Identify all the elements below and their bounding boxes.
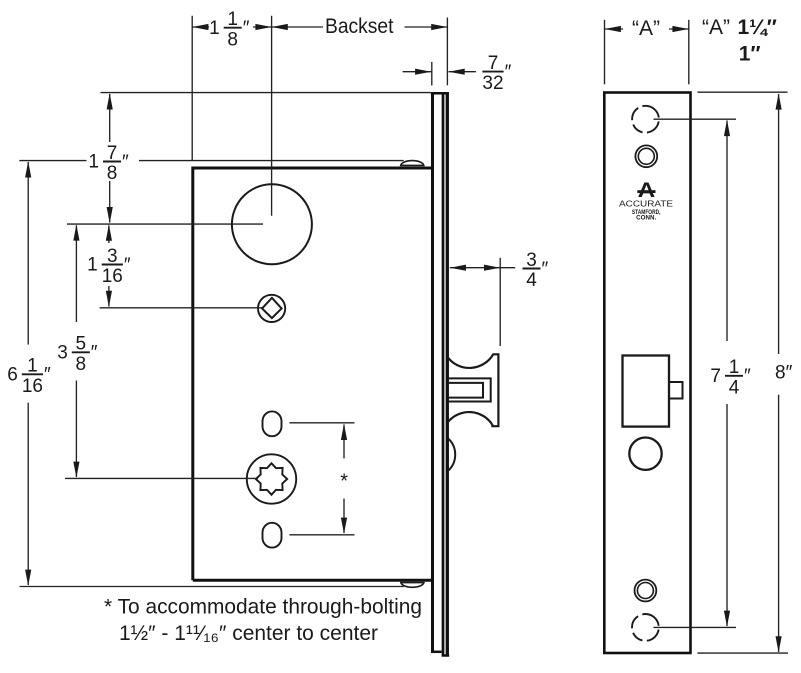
svg-text:″: ″ — [122, 152, 129, 173]
svg-text:*: * — [340, 471, 348, 493]
bottom screw dome — [401, 583, 424, 588]
latch bolt front — [623, 356, 670, 427]
svg-text:3: 3 — [57, 343, 68, 364]
svg-text:7: 7 — [710, 366, 721, 387]
svg-text:1¼″: 1¼″ — [738, 16, 777, 39]
lock case body — [193, 168, 433, 580]
8-point star hole — [256, 463, 287, 494]
svg-text:8″: 8″ — [775, 362, 793, 383]
faceplate top cap — [431, 92, 449, 95]
svg-text:″: ″ — [124, 255, 131, 276]
svg-text:″: ″ — [44, 365, 51, 386]
dim 3/4 — [450, 267, 515, 269]
svg-text:1: 1 — [209, 18, 220, 39]
latch bolt head inner rect — [448, 383, 483, 398]
bottom hole leader line — [654, 626, 737, 628]
dim 7-1/4 — [726, 121, 728, 342]
dim 1-1/8 and Backset line — [192, 26, 209, 28]
faceplate bottom caps — [431, 651, 442, 654]
extension line bottom y586.5 — [20, 586, 404, 588]
deadlatch pin arc — [448, 438, 456, 471]
bottom cylinder hole (dashed) — [632, 614, 659, 641]
svg-text:8: 8 — [227, 29, 238, 50]
extension line left edge — [191, 16, 193, 160]
plate top/bottom extension lines — [697, 91, 787, 93]
svg-text:CONN.: CONN. — [636, 216, 656, 222]
cylinder horizontal centerline — [67, 223, 263, 225]
svg-text:4: 4 — [729, 377, 740, 398]
spindle square (diamond) — [262, 298, 282, 318]
dim 1-3/16 — [108, 226, 110, 244]
upper screw ring — [635, 145, 657, 167]
mid circle hole — [629, 438, 661, 470]
svg-text:″: ″ — [542, 259, 549, 280]
svg-text:“A”: “A” — [632, 17, 660, 40]
oval extension lines — [289, 422, 354, 424]
turn-piece hub circle — [247, 454, 296, 503]
star leader line — [65, 477, 258, 479]
extension line y92.6 (1-7/8 top) — [101, 92, 431, 94]
latch bolt head outer rect — [448, 378, 491, 401]
svg-text:4: 4 — [526, 270, 537, 291]
svg-text:Backset: Backset — [325, 15, 394, 38]
dim star-to-star (*) — [343, 425, 345, 459]
armor faceplate edge (two lines) — [442, 93, 445, 656]
latch bolt spool profile — [448, 354, 499, 426]
svg-text:1½″ - 1¹¹⁄₁₆″ center to center: 1½″ - 1¹¹⁄₁₆″ center to center — [119, 622, 378, 645]
spindle hub circle — [258, 295, 285, 322]
svg-text:1″: 1″ — [739, 43, 761, 66]
svg-text:1: 1 — [87, 255, 98, 276]
cylinder hole circle — [232, 184, 312, 264]
dim 6-1/16 — [27, 162, 29, 345]
upper thru-bolt oval hole — [263, 411, 282, 436]
svg-text:″: ″ — [744, 366, 751, 387]
deadlatch tab — [669, 382, 683, 399]
case front edge line — [431, 94, 434, 653]
svg-text:8: 8 — [107, 163, 118, 184]
dim A line — [605, 28, 623, 30]
svg-text:“A”: “A” — [702, 16, 730, 39]
svg-text:16: 16 — [22, 376, 43, 397]
top hole leader line — [654, 118, 737, 120]
svg-text:8: 8 — [76, 354, 87, 375]
dim 7/32 — [403, 71, 432, 73]
lower thru-bolt oval hole — [263, 523, 282, 548]
svg-text:″: ″ — [91, 343, 98, 364]
top cylinder hole (dashed) — [632, 106, 659, 133]
top screw dome — [401, 161, 424, 166]
svg-text:″: ″ — [505, 62, 512, 83]
extension line plate right — [446, 18, 448, 86]
extension line y160.6 (6-1/16 top) — [19, 160, 86, 162]
svg-text:″: ″ — [243, 18, 250, 39]
svg-text:1: 1 — [88, 152, 99, 173]
cylinder vertical centerline — [271, 16, 273, 216]
dim 1-7/8 — [109, 94, 111, 142]
dim 3-5/8 — [75, 226, 77, 323]
svg-text:* To accommodate through-bolti: * To accommodate through-bolting — [104, 596, 422, 619]
svg-text:16: 16 — [102, 266, 123, 287]
dim 8 — [778, 94, 780, 354]
lower screw ring — [635, 580, 657, 602]
faceplate front view — [604, 93, 690, 654]
spindle leader line — [100, 307, 262, 309]
svg-text:32: 32 — [482, 73, 503, 94]
svg-text:6: 6 — [7, 365, 18, 386]
svg-text:ACCURATE: ACCURATE — [619, 199, 673, 208]
dim A extension lines — [604, 20, 606, 85]
